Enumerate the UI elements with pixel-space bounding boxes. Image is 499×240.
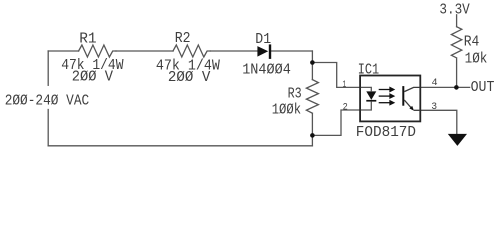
svg-text:R4: R4 xyxy=(464,35,480,51)
op-amp ... optocoupler IC1 box xyxy=(360,76,420,122)
svg-text:3: 3 xyxy=(431,101,437,113)
wire: 3.3V rail to R4 xyxy=(456,15,458,27)
svg-text:D1: D1 xyxy=(255,32,271,48)
svg-text:FOD817D: FOD817D xyxy=(356,125,416,141)
LED inside IC1 xyxy=(361,87,377,110)
svg-text:1N4ØØ4: 1N4ØØ4 xyxy=(242,62,291,78)
svg-text:1: 1 xyxy=(343,79,347,91)
svg-text:3.3V: 3.3V xyxy=(439,3,470,19)
svg-text:2ØØ-24Ø VAC: 2ØØ-24Ø VAC xyxy=(5,94,90,110)
ground xyxy=(448,134,467,146)
wire: right vertical below R3 xyxy=(311,114,313,146)
wire: R1 to R2 xyxy=(116,50,173,52)
node B junction dot xyxy=(310,133,315,138)
node A junction dot xyxy=(310,60,315,65)
resistor R2 xyxy=(173,45,210,57)
resistor R4 xyxy=(451,27,461,58)
wire: left vertical top segment xyxy=(47,51,49,85)
wire: bottom return xyxy=(48,145,312,147)
svg-text:1ØØk: 1ØØk xyxy=(272,102,301,118)
resistor R1 xyxy=(79,45,116,57)
svg-text:IC1: IC1 xyxy=(358,62,379,78)
wire: left vertical bottom segment xyxy=(47,110,49,146)
svg-text:4: 4 xyxy=(432,77,438,89)
diode D1 xyxy=(257,44,271,59)
svg-text:2ØØ V: 2ØØ V xyxy=(72,69,114,85)
svg-text:1Øk: 1Øk xyxy=(465,52,488,68)
wire: branch node A to pin 1 xyxy=(312,63,360,88)
svg-text:R3: R3 xyxy=(288,87,302,103)
wire: D1 to right corner xyxy=(271,50,313,52)
svg-text:2ØØ V: 2ØØ V xyxy=(168,70,211,86)
svg-text:R1: R1 xyxy=(79,32,96,48)
svg-text:2: 2 xyxy=(343,101,348,113)
wire: R4 to OUT node xyxy=(456,59,458,88)
LED light arrows xyxy=(379,88,394,105)
node OUT junction dot xyxy=(454,85,459,90)
wire: pin 4 to OUT xyxy=(420,86,469,88)
svg-text:OUT: OUT xyxy=(471,80,495,96)
wire: pin 3 to ground xyxy=(420,110,457,134)
wire: top from corner to R1 xyxy=(48,50,78,52)
svg-text:R2: R2 xyxy=(175,31,191,47)
wire: branch node B to pin 2 xyxy=(312,110,360,135)
wire: R2 to D1 xyxy=(210,50,257,52)
wire: right vertical above R3 xyxy=(311,51,313,80)
transistor Q (phototransistor of IC1) xyxy=(403,86,420,111)
resistor R3 xyxy=(306,80,318,114)
